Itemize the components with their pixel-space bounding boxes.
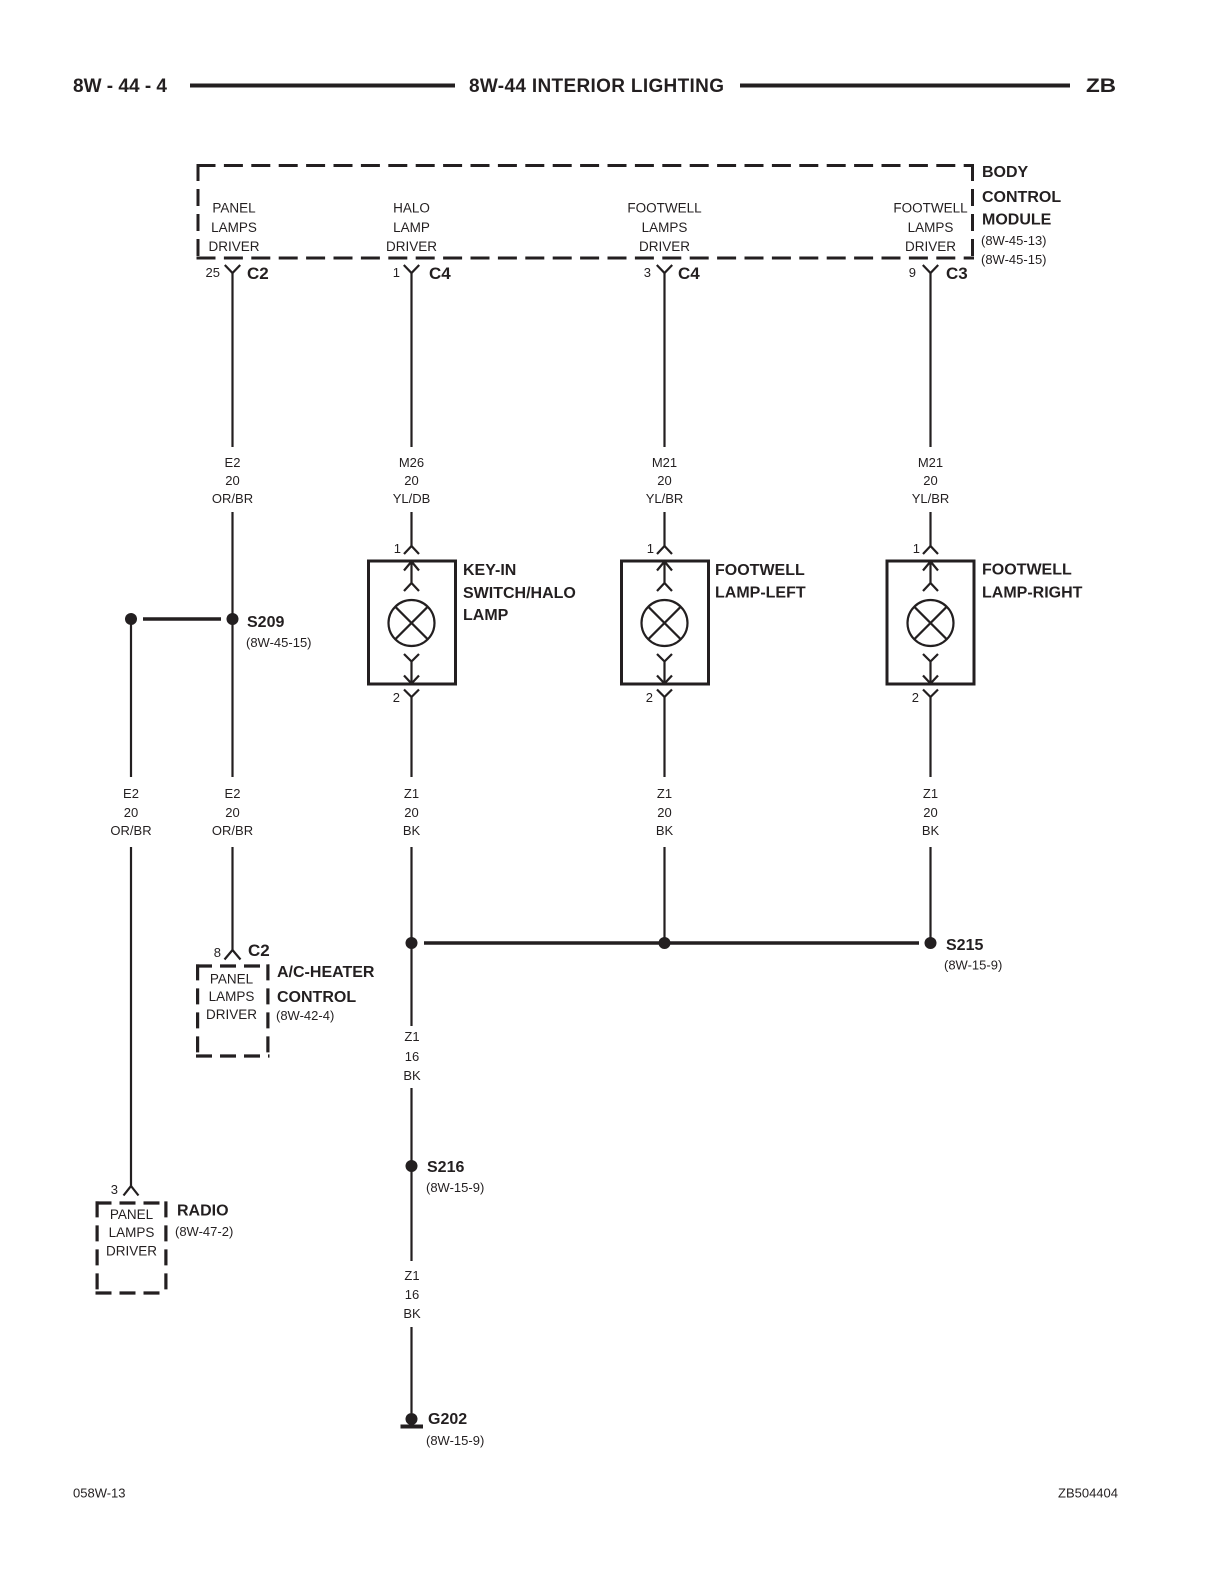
a/c-heater control dashed box (196, 964, 270, 1057)
ground G202 (401, 1411, 485, 1448)
svg-text:DRIVER: DRIVER (106, 1244, 157, 1259)
svg-text:FOOTWELL: FOOTWELL (715, 562, 805, 579)
svg-text:DRIVER: DRIVER (208, 239, 259, 254)
svg-text:C2: C2 (247, 264, 269, 283)
wire label E2 20 OR/BR (col 2) (212, 455, 253, 506)
svg-text:(8W-15-9): (8W-15-9) (944, 958, 1002, 973)
svg-text:058W-13: 058W-13 (73, 1486, 126, 1501)
svg-text:20: 20 (404, 473, 418, 488)
svg-text:YL/DB: YL/DB (393, 491, 431, 506)
svg-text:PANEL: PANEL (210, 972, 254, 987)
svg-text:(8W-45-13): (8W-45-13) (981, 233, 1047, 248)
svg-text:(8W-45-15): (8W-45-15) (246, 635, 312, 650)
body control module dashed box (197, 164, 975, 260)
wire C4-1 upper segment (410, 273, 412, 447)
a/c-heater control label (276, 964, 375, 1023)
svg-text:1: 1 (394, 541, 401, 556)
svg-text:20: 20 (923, 805, 937, 820)
svg-text:E2: E2 (225, 455, 241, 470)
svg-text:Z1: Z1 (404, 1268, 419, 1283)
svg-text:1: 1 (913, 541, 920, 556)
svg-text:DRIVER: DRIVER (206, 1007, 257, 1022)
svg-text:FOOTWELL: FOOTWELL (893, 201, 968, 216)
svg-text:2: 2 (393, 690, 400, 705)
header left rule (190, 84, 455, 88)
lamp: footwell lamp-left (622, 541, 806, 705)
svg-text:LAMP-RIGHT: LAMP-RIGHT (982, 585, 1083, 602)
svg-text:M26: M26 (399, 455, 424, 470)
wire col1 to radio (130, 847, 132, 1186)
svg-text:8W - 44 - 4: 8W - 44 - 4 (73, 76, 167, 97)
wire col2 mid segment through S209 (231, 512, 233, 777)
svg-text:BODY: BODY (982, 164, 1029, 181)
svg-text:Z1: Z1 (923, 786, 938, 801)
svg-text:20: 20 (225, 805, 239, 820)
wire label M21 20 YL/BR (right) (912, 455, 950, 506)
wire below S216 (410, 1171, 412, 1261)
svg-text:16: 16 (405, 1049, 419, 1064)
svg-text:BK: BK (403, 1068, 421, 1083)
connector C3 pin 9 (909, 264, 968, 283)
svg-text:ZB504404: ZB504404 (1058, 1486, 1118, 1501)
connector pin 3 at radio (111, 1182, 139, 1197)
svg-text:HALO: HALO (393, 201, 430, 216)
wire below footwell lamp left (663, 697, 665, 777)
radio dashed box (96, 1201, 168, 1294)
wire segment into S216 (410, 1088, 412, 1161)
svg-text:(8W-15-9): (8W-15-9) (426, 1180, 484, 1195)
svg-text:E2: E2 (225, 786, 241, 801)
svg-text:20: 20 (657, 805, 671, 820)
svg-text:Z1: Z1 (404, 786, 419, 801)
BCM internal label: footwell lamps driver (left) (627, 201, 702, 255)
svg-text:BK: BK (922, 823, 940, 838)
wire label Z1 16 BK (lower) (403, 1268, 421, 1321)
splice S215 bus (406, 937, 1003, 973)
svg-text:SWITCH/HALO: SWITCH/HALO (463, 585, 576, 602)
svg-text:BK: BK (656, 823, 674, 838)
svg-text:RADIO: RADIO (177, 1203, 229, 1220)
svg-text:20: 20 (225, 473, 239, 488)
svg-text:20: 20 (404, 805, 418, 820)
svg-text:C4: C4 (429, 264, 451, 283)
lamp: key-in switch/halo lamp (369, 541, 576, 705)
svg-text:E2: E2 (123, 786, 139, 801)
svg-text:CONTROL: CONTROL (982, 189, 1061, 206)
svg-text:M21: M21 (652, 455, 677, 470)
svg-text:2: 2 (912, 690, 919, 705)
svg-text:(8W-15-9): (8W-15-9) (426, 1433, 484, 1448)
BCM internal label: halo lamp driver (386, 201, 437, 255)
svg-text:PANEL: PANEL (212, 201, 256, 216)
svg-text:M21: M21 (918, 455, 943, 470)
svg-text:C4: C4 (678, 264, 700, 283)
wire label E2 20 OR/BR (col 2 lower) (212, 786, 253, 838)
svg-text:S215: S215 (946, 937, 983, 954)
svg-text:LAMPS: LAMPS (642, 220, 688, 235)
wire col2 to a/c-heater control (231, 847, 233, 950)
svg-text:S216: S216 (427, 1159, 464, 1176)
wire col1 from S209 down (130, 619, 132, 777)
svg-text:MODULE: MODULE (982, 212, 1052, 229)
wire label M26 20 YL/DB (393, 455, 431, 506)
svg-text:20: 20 (657, 473, 671, 488)
svg-text:Z1: Z1 (404, 1029, 419, 1044)
svg-text:BK: BK (403, 823, 421, 838)
svg-text:Z1: Z1 (657, 786, 672, 801)
svg-text:YL/BR: YL/BR (646, 491, 684, 506)
wire segment into G202 (410, 1327, 412, 1413)
svg-text:LAMPS: LAMPS (211, 220, 257, 235)
svg-text:LAMPS: LAMPS (209, 989, 255, 1004)
wire col3 to halo lamp (410, 512, 412, 546)
svg-text:25: 25 (206, 265, 220, 280)
wire below halo lamp (410, 697, 412, 777)
svg-text:1: 1 (647, 541, 654, 556)
svg-text:LAMP: LAMP (393, 220, 430, 235)
svg-text:8W-44 INTERIOR LIGHTING: 8W-44 INTERIOR LIGHTING (469, 76, 724, 97)
wire label E2 20 OR/BR (col 1 lower) (110, 786, 151, 838)
wire col3 below bus to S216 (410, 943, 412, 1026)
wire col3 to splice bus (410, 847, 412, 943)
svg-text:16: 16 (405, 1287, 419, 1302)
svg-text:OR/BR: OR/BR (212, 491, 253, 506)
wire C3-9 upper segment (929, 273, 931, 447)
svg-text:FOOTWELL: FOOTWELL (627, 201, 702, 216)
BCM internal label: footwell lamps driver (right) (893, 201, 968, 255)
svg-text:S209: S209 (247, 614, 284, 631)
wire col5 to footwell lamp right (929, 512, 931, 546)
wire below footwell lamp right (929, 697, 931, 777)
svg-text:G202: G202 (428, 1411, 467, 1428)
connector C4 pin 3 (644, 264, 701, 283)
svg-text:LAMPS: LAMPS (109, 1225, 155, 1240)
svg-text:LAMP: LAMP (463, 607, 509, 624)
svg-text:DRIVER: DRIVER (905, 239, 956, 254)
wire label M21 20 YL/BR (left) (646, 455, 684, 506)
svg-text:C3: C3 (946, 264, 968, 283)
svg-text:3: 3 (644, 265, 651, 280)
wire label Z1 20 BK (col 5) (922, 786, 940, 838)
lamp: footwell lamp-right (887, 541, 1083, 705)
connector C2 pin 25 (206, 264, 269, 283)
svg-text:BK: BK (403, 1306, 421, 1321)
svg-text:3: 3 (111, 1182, 118, 1197)
svg-text:C2: C2 (248, 941, 270, 960)
svg-text:PANEL: PANEL (110, 1207, 154, 1222)
wire label Z1 20 BK (col 4) (656, 786, 674, 838)
svg-text:LAMP-LEFT: LAMP-LEFT (715, 585, 806, 602)
svg-text:FOOTWELL: FOOTWELL (982, 562, 1072, 579)
svg-text:8: 8 (214, 945, 221, 960)
svg-text:2: 2 (646, 690, 653, 705)
svg-text:20: 20 (923, 473, 937, 488)
connector C4 pin 1 (393, 264, 452, 283)
splice S209 (125, 613, 312, 650)
radio label (175, 1203, 233, 1240)
svg-text:(8W-42-4): (8W-42-4) (276, 1008, 334, 1023)
svg-text:9: 9 (909, 265, 916, 280)
wire col5 to splice bus (929, 847, 931, 943)
splice S216 (406, 1159, 485, 1195)
wire C2-25 upper segment (231, 273, 233, 447)
wire C4-3 upper segment (663, 273, 665, 447)
wire col4 to footwell lamp left (663, 512, 665, 546)
wire col4 to splice bus (663, 847, 665, 943)
svg-text:LAMPS: LAMPS (908, 220, 954, 235)
svg-text:(8W-47-2): (8W-47-2) (175, 1224, 233, 1239)
BCM name label (981, 164, 1061, 267)
wire label Z1 16 BK (upper) (403, 1029, 421, 1083)
svg-text:YL/BR: YL/BR (912, 491, 950, 506)
header right rule (740, 84, 1070, 88)
BCM internal label: panel lamps driver (208, 201, 259, 255)
svg-text:OR/BR: OR/BR (212, 823, 253, 838)
svg-text:DRIVER: DRIVER (639, 239, 690, 254)
svg-text:1: 1 (393, 265, 400, 280)
svg-text:20: 20 (124, 805, 138, 820)
wire label Z1 20 BK (col 3) (403, 786, 421, 838)
svg-text:KEY-IN: KEY-IN (463, 562, 516, 579)
svg-text:ZB: ZB (1086, 76, 1116, 97)
connector C2 pin 8 at a/c-heater control (214, 941, 270, 960)
svg-text:DRIVER: DRIVER (386, 239, 437, 254)
svg-text:CONTROL: CONTROL (277, 989, 356, 1006)
svg-text:A/C-HEATER: A/C-HEATER (277, 964, 375, 981)
svg-text:(8W-45-15): (8W-45-15) (981, 252, 1047, 267)
svg-text:OR/BR: OR/BR (110, 823, 151, 838)
